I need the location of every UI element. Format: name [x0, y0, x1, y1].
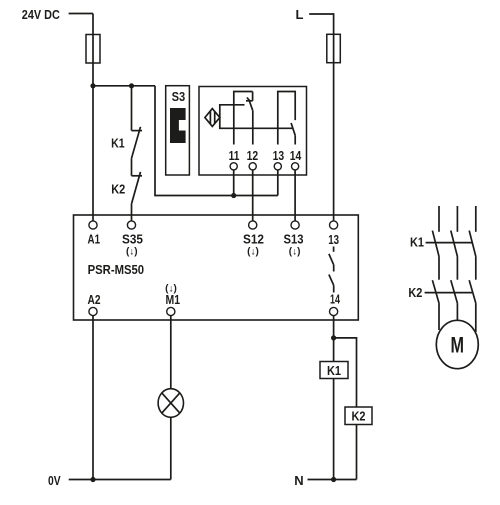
sensor terminal 12 [249, 163, 256, 170]
svg-text:S35: S35 [122, 232, 143, 247]
sensor actuator diamond [205, 109, 220, 127]
svg-text:(↓): (↓) [289, 247, 301, 258]
svg-text:(↓): (↓) [247, 247, 259, 258]
relay contact 13-14 [329, 247, 334, 293]
fuse F2 [327, 34, 341, 62]
sensor body rectangle [220, 105, 293, 129]
svg-text:K1: K1 [410, 234, 424, 249]
wires to motor [439, 303, 476, 332]
svg-text:14: 14 [290, 148, 302, 163]
sensor contact 13-14 [278, 92, 296, 145]
node junction K1 branch [129, 83, 134, 88]
contactor K2 main contacts [425, 280, 476, 303]
svg-text:S13: S13 [284, 232, 304, 247]
wire K2 coil to N [356, 425, 358, 480]
svg-text:A2: A2 [88, 292, 101, 307]
contactor K1 main contacts [426, 231, 476, 257]
wire 12 to S12 [252, 170, 254, 221]
svg-text:M: M [451, 333, 465, 358]
contact K2 (aux, NO) [132, 172, 143, 204]
relay PSR-MS50 box [74, 215, 359, 320]
node junction N [331, 477, 336, 482]
terminal A1 [89, 221, 97, 229]
sensor terminal 11 [230, 163, 237, 170]
svg-text:L: L [296, 7, 304, 22]
sensor contact 11-12 [234, 92, 253, 145]
wire lamp to 0V [170, 417, 172, 479]
svg-text:K1: K1 [327, 363, 341, 378]
wire A2 down [92, 316, 94, 480]
wire horizontal 24V branch [93, 85, 155, 87]
node junction under 11 [231, 193, 236, 198]
svg-text:K1: K1 [111, 136, 125, 151]
svg-text:13: 13 [273, 148, 285, 163]
sensor box [199, 87, 307, 176]
lamp H1 [158, 389, 183, 418]
svg-text:S12: S12 [243, 232, 264, 247]
svg-text:M1: M1 [166, 292, 181, 307]
switch S3 box [166, 86, 190, 175]
terminal 13 [330, 221, 338, 229]
three phase supply stubs [439, 206, 476, 232]
coil K1 [320, 362, 348, 379]
wire N [308, 479, 357, 481]
terminal S13 [291, 221, 299, 229]
wire K1 coil to N [333, 379, 335, 480]
S3 actuator icon [170, 108, 186, 143]
node junction 0V [90, 477, 95, 482]
svg-text:(↓): (↓) [126, 247, 138, 258]
terminal S12 [249, 221, 257, 229]
wire down to sensor feed [155, 86, 278, 196]
svg-text:N: N [294, 473, 303, 488]
motor M [436, 320, 478, 368]
contact K1 (aux, NO) [132, 86, 143, 159]
wire 13 down [277, 170, 279, 196]
wire 14 down [333, 316, 335, 362]
wire 14 to S13 [294, 170, 296, 221]
wire 11 down [233, 170, 235, 196]
svg-text:12: 12 [247, 148, 259, 163]
svg-text:S3: S3 [172, 89, 186, 104]
svg-text:14: 14 [330, 292, 341, 307]
svg-text:24V DC: 24V DC [22, 7, 61, 22]
wire M1 to lamp [170, 316, 172, 389]
wire 0V [69, 479, 171, 481]
sensor terminal 14 [292, 163, 299, 170]
coil K2 [345, 407, 372, 425]
svg-text:11: 11 [229, 148, 240, 163]
fuse F1 [86, 35, 100, 64]
svg-text:K2: K2 [408, 285, 422, 300]
wire K2 to S35 [131, 204, 133, 221]
wires between K1 and K2 contacts [439, 256, 476, 279]
svg-text:PSR-MS50: PSR-MS50 [88, 262, 145, 277]
wire from 24V DC label [69, 13, 93, 15]
svg-text:K2: K2 [352, 409, 366, 424]
wire from L [309, 14, 333, 221]
svg-text:0V: 0V [48, 473, 61, 488]
svg-text:13: 13 [328, 232, 339, 247]
wire between K1 and K2 contacts [131, 158, 133, 176]
sensor terminal 13 [274, 163, 281, 170]
svg-text:K2: K2 [111, 182, 125, 197]
svg-text:A1: A1 [88, 232, 101, 247]
wire left supply rail down to A1 [92, 14, 94, 221]
node junction 24V rail [90, 83, 95, 88]
node junction K2 branch [331, 335, 336, 340]
terminal S35 [127, 221, 135, 229]
wire branch to K2 coil [334, 338, 357, 407]
